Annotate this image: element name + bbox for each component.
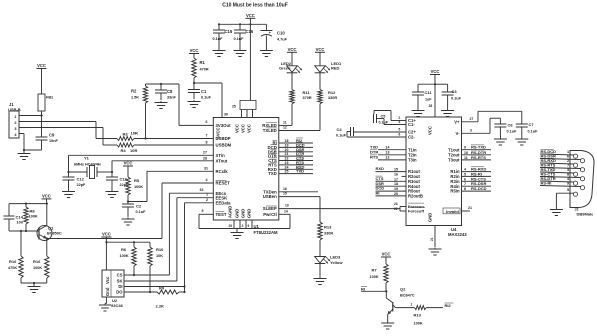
svg-text:Forceoff: Forceoff (408, 209, 425, 214)
svg-text:C8: C8 (167, 89, 173, 94)
power VCC (main top) (245, 13, 255, 25)
svg-text:BC850C: BC850C (47, 231, 62, 235)
svg-text:C3: C3 (452, 89, 458, 94)
svg-text:10: 10 (285, 204, 289, 208)
svg-text:TXD: TXD (268, 171, 277, 176)
svg-text:C15: C15 (225, 29, 233, 34)
svg-text:2: 2 (14, 121, 16, 125)
wire PwrCtl to ground (279, 209, 290, 228)
ground (under C11) (412, 109, 425, 117)
svg-text:7: 7 (206, 134, 208, 138)
wire Q1 base net (9, 230, 39, 232)
wire USB ground pin4 (19, 134, 25, 153)
resistor R7 100K (370, 257, 389, 291)
svg-text:370R: 370R (303, 96, 312, 100)
svg-text:21: 21 (468, 206, 472, 210)
svg-text:MAX3243: MAX3243 (448, 232, 467, 237)
svg-text:6MHz HC49/4H: 6MHz HC49/4H (74, 163, 101, 167)
svg-text:C11: C11 (425, 90, 433, 95)
svg-text:11: 11 (464, 156, 468, 160)
svg-text:R2: R2 (131, 89, 137, 94)
svg-text:R11: R11 (303, 90, 311, 95)
svg-text:9: 9 (248, 224, 250, 228)
svg-text:5: 5 (464, 172, 466, 176)
svg-text:USBen: USBen (263, 194, 277, 199)
capacitor C5 0.1uF loop (C1+/C1-) (374, 111, 407, 125)
svg-text:330R: 330R (328, 96, 337, 100)
svg-text:1: 1 (206, 193, 208, 197)
svg-text:LED3: LED3 (330, 255, 341, 260)
svg-text:PwrCtl: PwrCtl (263, 212, 277, 217)
svg-text:Q2: Q2 (400, 287, 406, 292)
svg-text:1: 1 (411, 303, 413, 307)
svg-text:VCC: VCC (241, 124, 246, 133)
ground (under U4) (429, 248, 442, 256)
svg-text:C13: C13 (120, 177, 128, 182)
op-amp U1 FT8U232AM (USB UART IC) (213, 118, 278, 235)
capacitor C12 22pF (63, 172, 87, 190)
ground (under C13) (106, 190, 119, 198)
svg-text:5: 5 (202, 209, 204, 213)
resistor R13 100K (395, 303, 443, 326)
svg-text:RED: RED (331, 66, 340, 71)
resistor R9 2.2K (156, 286, 186, 309)
svg-text:Yellow: Yellow (330, 260, 343, 265)
svg-text:27: 27 (470, 117, 474, 121)
wire/net label DSR from U4 R-out (376, 181, 407, 186)
svg-text:30: 30 (224, 113, 228, 117)
wire AVCC to U1 pin 30 (194, 83, 228, 118)
svg-text:5: 5 (399, 128, 401, 132)
svg-text:8: 8 (206, 141, 208, 145)
svg-text:100K: 100K (370, 275, 379, 279)
svg-text:2: 2 (567, 159, 569, 163)
svg-text:R6: R6 (121, 247, 127, 252)
svg-text:DB9Male: DB9Male (577, 211, 595, 216)
eeprom U2 93C46 (102, 270, 128, 308)
connector J2 DB9 male (540, 149, 594, 216)
svg-text:29: 29 (229, 224, 233, 228)
power VCC (above LED1) (315, 47, 325, 53)
svg-text:R10: R10 (156, 247, 164, 252)
svg-text:C10 Must be less than 10uF: C10 Must be less than 10uF (222, 3, 288, 9)
svg-text:R7: R7 (372, 268, 378, 273)
svg-text:18: 18 (285, 139, 289, 143)
svg-text:1: 1 (567, 150, 569, 154)
svg-text:AVCC: AVCC (216, 127, 221, 139)
svg-text:CS: CS (117, 273, 123, 278)
capacitor C11 1uF (412, 84, 435, 109)
power VCC (above Q1) (41, 193, 51, 199)
svg-text:20: 20 (394, 192, 398, 196)
svg-text:23: 23 (394, 202, 398, 206)
svg-text:18: 18 (394, 182, 398, 186)
svg-text:27: 27 (203, 151, 207, 155)
svg-text:12: 12 (283, 126, 287, 130)
ground (under LED3) (314, 277, 327, 285)
ground (under C7) (515, 138, 528, 146)
svg-text:22: 22 (394, 207, 398, 211)
ground (under C8) (155, 101, 168, 109)
capacitor C14 10n (4, 204, 24, 231)
wire DO net (128, 291, 157, 293)
svg-text:6: 6 (464, 177, 466, 181)
svg-text:28: 28 (429, 104, 433, 108)
svg-text:93C46: 93C46 (111, 303, 124, 308)
svg-text:9: 9 (464, 146, 466, 150)
svg-text:3: 3 (567, 168, 569, 172)
svg-text:RI2: RI2 (445, 303, 452, 308)
wire/net label DSR (U1 pin 20) (279, 147, 313, 152)
wire DI branch (128, 286, 185, 288)
svg-text:470K: 470K (8, 266, 17, 270)
wire U2 ground (105, 297, 106, 304)
wire Invalid stub (462, 206, 473, 211)
svg-text:R5in: R5in (450, 189, 460, 194)
svg-text:Gnd: Gnd (105, 287, 110, 296)
node R5/C2/RCclk junction (127, 200, 129, 202)
connector J1 USB-B (8, 102, 22, 138)
resistor R2 1.5K (131, 84, 148, 139)
svg-text:32: 32 (200, 188, 204, 192)
wire RESET to Q1 emitter (47, 178, 214, 239)
wire/net label RS-DTR at U4 pin 10 (462, 150, 492, 155)
wire Q1 VCC rail (9, 199, 48, 205)
svg-text:VCC: VCC (247, 124, 252, 133)
svg-text:V-: V- (456, 131, 461, 136)
svg-text:C6: C6 (508, 123, 514, 128)
capacitor C16 0.1uF (234, 24, 254, 49)
svg-text:23: 23 (285, 161, 289, 165)
svg-text:VCC: VCC (42, 193, 51, 198)
wire EEcs net (128, 188, 213, 275)
svg-text:11: 11 (283, 120, 287, 124)
ground (under U2) (99, 304, 111, 312)
svg-text:RTS: RTS (370, 155, 378, 160)
svg-text:2: 2 (242, 224, 244, 228)
svg-text:R3: R3 (123, 132, 129, 137)
svg-text:C10: C10 (277, 31, 285, 36)
svg-text:10n: 10n (17, 220, 24, 224)
svg-text:2.2K: 2.2K (156, 304, 165, 309)
wire TEST/ground rail under U1 (199, 209, 290, 229)
wire/net label RTS to U4 T-in (370, 155, 406, 160)
svg-text:C1-: C1- (408, 122, 415, 127)
resistor R4 10R (117, 143, 137, 153)
svg-text:R8: R8 (30, 209, 36, 214)
resistor R12 330R (318, 73, 338, 131)
svg-text:6: 6 (567, 155, 569, 159)
svg-text:470R: 470R (200, 68, 209, 72)
svg-text:R1: R1 (200, 60, 206, 65)
svg-text:SLEEP: SLEEP (263, 206, 277, 211)
svg-text:4.7uF: 4.7uF (277, 38, 288, 42)
svg-text:1.5K: 1.5K (131, 96, 139, 100)
svg-text:8: 8 (464, 187, 466, 191)
svg-text:330R: 330R (324, 232, 333, 236)
svg-text:BC847C: BC847C (400, 294, 415, 298)
wire/net label RS-RTS at U4 pin 11 (462, 155, 492, 160)
svg-text:10: 10 (464, 151, 468, 155)
wire VBUS pin1 (19, 114, 43, 116)
svg-text:0.1uF: 0.1uF (528, 129, 539, 133)
svg-text:VCC: VCC (124, 161, 133, 166)
svg-text:0.1uF: 0.1uF (336, 134, 347, 138)
node AVCC junction (193, 82, 195, 84)
svg-text:8: 8 (567, 173, 569, 177)
svg-text:GND: GND (241, 209, 246, 218)
ground (DB9 pin5) (550, 208, 563, 216)
svg-text:AGND: AGND (228, 206, 233, 218)
svg-text:V+: V+ (454, 119, 460, 124)
svg-text:VCC: VCC (316, 47, 325, 52)
wire/net label RS-CTS at U4 pin 6 (462, 176, 492, 181)
svg-text:14: 14 (386, 146, 390, 150)
svg-text:C7: C7 (529, 122, 535, 127)
svg-text:VCC: VCC (190, 48, 199, 53)
wire EESK net (128, 193, 213, 281)
svg-text:3: 3 (470, 128, 472, 132)
svg-text:R9: R9 (159, 286, 165, 291)
wire/net label RI2 (U1 pin 18) (279, 138, 313, 143)
capacitor C13 22pF (106, 172, 129, 190)
wire/net label CTS from U4 R-out (376, 176, 407, 181)
svg-text:RCclk: RCclk (216, 169, 229, 174)
svg-text:VCC: VCC (431, 69, 440, 74)
svg-text:VCC: VCC (288, 47, 297, 52)
svg-text:13: 13 (386, 151, 390, 155)
svg-text:GND: GND (235, 209, 240, 218)
svg-text:FT8U232AM: FT8U232AM (254, 230, 278, 235)
svg-text:Green: Green (279, 66, 291, 71)
svg-text:SK: SK (117, 279, 123, 284)
svg-text:RS-DCD: RS-DCD (471, 186, 487, 191)
svg-text:VCC: VCC (235, 124, 240, 133)
svg-text:22pF: 22pF (77, 183, 87, 187)
svg-text:C9: C9 (49, 133, 55, 138)
svg-text:16: 16 (283, 187, 287, 191)
svg-text:DO: DO (116, 290, 123, 295)
svg-text:2: 2 (206, 198, 208, 202)
svg-text:C14: C14 (16, 215, 24, 220)
svg-text:4: 4 (399, 120, 401, 124)
resistor R3 10R (117, 131, 138, 141)
svg-text:RXD: RXD (376, 166, 385, 171)
wire/net label DCD (U1 pin 19) (279, 142, 313, 147)
svg-text:17: 17 (394, 177, 398, 181)
svg-text:0.1uF: 0.1uF (379, 121, 389, 125)
wire/net label RXD from U4 R-out (376, 166, 407, 171)
led LED1 RED (315, 52, 342, 73)
wire/net label RS-DCD at U4 pin 8 (462, 186, 492, 191)
wire/net label CTS (U1 pin 22) (279, 156, 313, 161)
wire TXLED (279, 126, 320, 131)
resistor R1 470R (192, 54, 209, 84)
svg-text:0.1uF: 0.1uF (451, 96, 462, 100)
svg-text:14: 14 (284, 209, 288, 213)
pin 28 label (U4 VCC) (429, 104, 433, 108)
svg-text:15: 15 (283, 192, 287, 196)
svg-text:5: 5 (567, 188, 569, 192)
ground (under C10) (260, 49, 273, 57)
crystal Y1 6MHz HC49/4H (67, 156, 113, 179)
svg-text:6: 6 (206, 120, 208, 124)
wire RXLED (279, 120, 292, 125)
svg-text:C5: C5 (381, 115, 386, 119)
resistor R16 470K (8, 231, 23, 283)
svg-text:0.1uF: 0.1uF (507, 129, 518, 133)
svg-text:19: 19 (285, 143, 289, 147)
ground (USB shell) (18, 152, 31, 160)
wire Q1 ground rail (21, 282, 47, 285)
resistor R13 330R (LED3) (318, 222, 334, 257)
svg-text:Invalid: Invalid (446, 209, 459, 214)
wire U1 GND pin stubs (229, 220, 253, 229)
svg-text:USBDM: USBDM (216, 142, 232, 147)
node R2/USBDP junction (144, 137, 146, 139)
ground (under C6) (494, 138, 507, 146)
wire/net label DCD from U4 R-out (376, 186, 407, 191)
svg-text:RI: RI (376, 191, 380, 196)
wire/net label DTR (U1 pin 21) (279, 151, 313, 156)
wire VCC feed to U1 VCC pins (249, 24, 251, 100)
ground (under C15) (213, 49, 226, 57)
led LED2 Green (279, 52, 302, 73)
svg-text:21: 21 (285, 152, 289, 156)
svg-text:VCC: VCC (246, 13, 255, 18)
svg-text:GND: GND (428, 213, 433, 222)
svg-text:TXLED: TXLED (263, 128, 277, 133)
svg-text:C2: C2 (136, 204, 142, 209)
svg-text:28: 28 (203, 156, 207, 160)
svg-text:100K: 100K (134, 185, 143, 189)
ground (Q2 emitter) (381, 322, 394, 330)
svg-text:7: 7 (464, 182, 466, 186)
power VCC (above R1) (189, 48, 199, 54)
resistor R5 100K (126, 166, 144, 202)
svg-text:R13: R13 (414, 313, 422, 318)
svg-text:0.1uF: 0.1uF (136, 210, 147, 214)
svg-text:T3out: T3out (448, 158, 460, 163)
led LED3 Yellow (315, 255, 344, 278)
wire VCC top rail (218, 23, 267, 25)
capacitor C1 0.1uF (AVCC) (188, 83, 212, 100)
svg-text:R12: R12 (328, 90, 336, 95)
wire 3V3Out net (146, 83, 214, 126)
ground (Q1 divider) (28, 285, 41, 293)
wire SLEEP to Forceon/Forceoff (279, 202, 406, 211)
wire/net label RS-RI at U4 pin 5 (462, 171, 492, 176)
svg-text:RS-RI: RS-RI (541, 181, 552, 186)
svg-text:19: 19 (394, 187, 398, 191)
capacitor C9 10nF (24, 116, 59, 151)
svg-text:RI: RI (361, 286, 365, 291)
wire RCclk (128, 166, 213, 201)
svg-text:25: 25 (285, 170, 289, 174)
node Q1 emitter junction (46, 237, 48, 239)
svg-text:EEData: EEData (216, 200, 232, 205)
wire EEData net (183, 198, 213, 292)
resistor R6 100K (120, 242, 137, 275)
wire/net label RS-RXD at U4 pin 4 (462, 167, 492, 172)
ground (under U1) (231, 229, 244, 239)
svg-text:10R: 10R (130, 148, 137, 153)
wire U2 VCC rail (105, 237, 150, 270)
net label RI2 (Q2 collector out) (445, 303, 454, 308)
svg-text:R2outB: R2outB (408, 194, 423, 199)
note: C10 must be less than 10uF (222, 3, 288, 9)
wire XTin (69, 151, 214, 173)
svg-text:R5: R5 (134, 178, 140, 183)
power VCC (above R5) (123, 161, 133, 167)
svg-text:0.1uF: 0.1uF (234, 37, 245, 41)
svg-text:VCC: VCC (102, 232, 111, 237)
wire U4 ground (430, 226, 435, 248)
wire/net label RXD (U1 pin 24) (279, 164, 313, 169)
wire U1 VCC pin stubs (232, 101, 256, 118)
svg-text:C12: C12 (77, 177, 85, 182)
svg-text:6: 6 (399, 133, 401, 137)
svg-text:VCC: VCC (37, 63, 46, 68)
svg-text:C2-: C2- (408, 135, 415, 140)
ferrite bead FB1 (38, 69, 53, 116)
ground (under C12) (62, 190, 75, 198)
svg-text:Vcc: Vcc (105, 276, 110, 284)
svg-text:3V3Out: 3V3Out (216, 123, 232, 128)
capacitor C3 0.1uF (435, 84, 462, 109)
svg-text:GND: GND (247, 209, 252, 218)
wire DB9 pin5 to ground (556, 193, 574, 208)
svg-text:R4: R4 (121, 148, 127, 153)
svg-text:RS-RTS: RS-RTS (471, 155, 486, 160)
svg-text:4: 4 (206, 178, 208, 182)
power VCC (above U2) (101, 232, 111, 238)
svg-text:1uF: 1uF (425, 97, 432, 101)
svg-text:100K: 100K (33, 266, 42, 270)
svg-text:C4: C4 (337, 127, 343, 132)
capacitor C6 0.1uF (494, 123, 517, 138)
svg-text:VCC: VCC (428, 126, 433, 135)
power VCC (above FB1) (37, 63, 47, 69)
power VCC (above U4) (430, 69, 440, 117)
capacitor C7 0.1uF (516, 122, 538, 138)
svg-text:9: 9 (567, 182, 569, 186)
ground (under C1) (188, 100, 201, 108)
svg-text:0.1uF: 0.1uF (201, 96, 212, 100)
svg-text:100K: 100K (414, 322, 423, 326)
wire/net label RS-DSR at U4 pin 7 (462, 181, 492, 186)
svg-text:TEST: TEST (216, 212, 227, 217)
capacitor C2 0.1uF (122, 202, 146, 218)
svg-text:Y1: Y1 (84, 156, 90, 161)
node R6/CS junction (133, 274, 135, 276)
ground (under C16) (234, 49, 247, 57)
svg-text:0.1uF: 0.1uF (213, 37, 224, 41)
svg-text:3: 3 (14, 127, 16, 131)
transistor Q2 BC847C (386, 287, 415, 322)
wire TXDen stub (279, 187, 318, 192)
svg-text:21: 21 (430, 237, 434, 241)
svg-text:16: 16 (394, 173, 398, 177)
ground (under C3) (441, 109, 454, 117)
svg-text:RESET: RESET (216, 181, 231, 186)
ground (under C2) (122, 218, 135, 226)
capacitor C15 0.1uF (213, 24, 233, 49)
capacitor C4 0.1uF (C2+/C2-) (336, 127, 406, 138)
svg-text:R16: R16 (33, 259, 41, 264)
wire V+ to C7 (462, 111, 522, 123)
wire/net label TXD (U1 pin 25) (279, 169, 313, 174)
